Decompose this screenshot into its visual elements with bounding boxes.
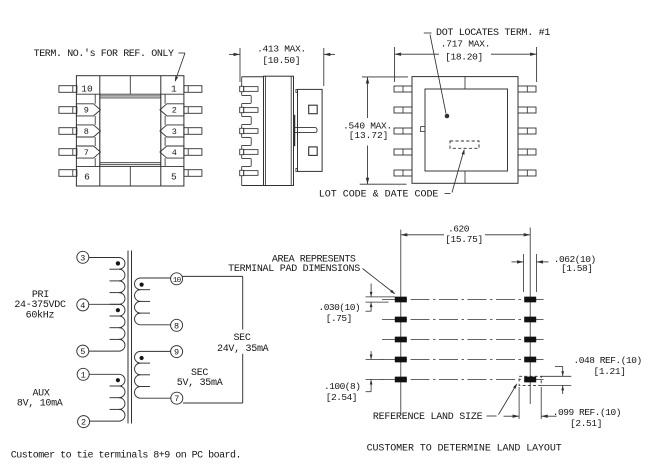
svg-text:.048 REF.(10): .048 REF.(10) [574, 355, 642, 366]
svg-text:2: 2 [81, 418, 86, 428]
svg-text:TERM. NO.'s FOR REF. ONLY: TERM. NO.'s FOR REF. ONLY [34, 48, 174, 60]
svg-text:3: 3 [80, 253, 85, 263]
svg-text:[1.21]: [1.21] [594, 366, 626, 377]
svg-text:1: 1 [171, 84, 177, 95]
svg-text:SEC: SEC [233, 333, 250, 344]
svg-text:LOT CODE & DATE CODE: LOT CODE & DATE CODE [319, 189, 439, 200]
svg-text:7: 7 [84, 148, 89, 158]
svg-text:.030(10): .030(10) [319, 302, 361, 313]
svg-text:[15.75]: [15.75] [445, 234, 483, 245]
svg-text:5V, 35mA: 5V, 35mA [177, 378, 223, 389]
svg-text:[18.20]: [18.20] [445, 52, 483, 63]
svg-text:2: 2 [172, 106, 177, 116]
svg-text:[1.58]: [1.58] [561, 263, 593, 274]
svg-text:3: 3 [172, 127, 177, 137]
svg-text:8: 8 [84, 127, 89, 137]
svg-text:.100(8): .100(8) [324, 381, 360, 392]
svg-text:8V, 10mA: 8V, 10mA [17, 398, 63, 409]
svg-text:7: 7 [174, 394, 179, 404]
svg-text:TERMINAL PAD DIMENSIONS: TERMINAL PAD DIMENSIONS [228, 264, 360, 275]
svg-text:.717 MAX.: .717 MAX. [441, 38, 491, 49]
svg-text:24V, 35mA: 24V, 35mA [217, 344, 269, 355]
svg-text:4: 4 [80, 301, 85, 311]
svg-text:9: 9 [174, 348, 179, 358]
svg-text:.413 MAX.: .413 MAX. [257, 43, 306, 54]
svg-text:Customer to tie terminals 8+9: Customer to tie terminals 8+9 on PC boar… [11, 450, 241, 462]
svg-text:5: 5 [171, 171, 177, 182]
svg-text:24-375VDC: 24-375VDC [14, 300, 66, 311]
svg-text:DOT LOCATES TERM. #1: DOT LOCATES TERM. #1 [436, 28, 550, 39]
svg-text:[10.50]: [10.50] [262, 55, 300, 66]
svg-text:1: 1 [81, 370, 86, 380]
svg-text:[.75]: [.75] [326, 313, 352, 324]
svg-text:[2.54]: [2.54] [326, 392, 357, 403]
svg-text:REFERENCE LAND SIZE: REFERENCE LAND SIZE [373, 412, 483, 423]
svg-text:CUSTOMER TO DETERMINE LAND LAY: CUSTOMER TO DETERMINE LAND LAYOUT [367, 443, 562, 454]
svg-text:8: 8 [174, 321, 179, 331]
svg-text:4: 4 [172, 148, 177, 158]
svg-text:[2.51]: [2.51] [570, 418, 602, 429]
svg-text:[13.72]: [13.72] [349, 130, 389, 141]
svg-text:10: 10 [81, 84, 93, 95]
svg-text:.099 REF.(10): .099 REF.(10) [553, 407, 621, 418]
svg-text:9: 9 [84, 106, 89, 116]
svg-text:6: 6 [84, 171, 90, 182]
svg-text:60kHz: 60kHz [26, 309, 55, 321]
svg-text:10: 10 [173, 277, 182, 285]
svg-text:5: 5 [80, 347, 85, 357]
